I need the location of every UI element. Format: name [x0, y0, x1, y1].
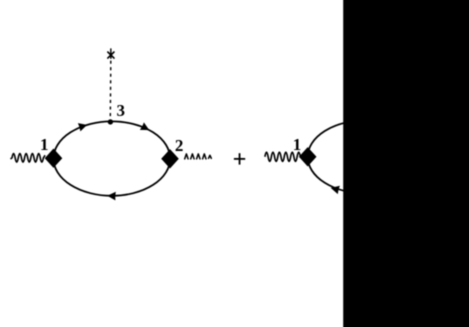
vertex diamond 1 (right diagram)	[299, 147, 317, 166]
arrow on top-left arc	[78, 123, 87, 131]
arrow on top-right arc	[140, 122, 149, 130]
dashed line to cross (external field)	[109, 61, 112, 120]
fermion loop ellipse (left diagram)	[54, 121, 171, 195]
black panel on right	[343, 0, 469, 327]
svg-text:2: 2	[175, 136, 184, 155]
svg-text:1: 1	[293, 135, 302, 154]
fermion loop ellipse (right diagram, clipped by black panel)	[308, 120, 425, 193]
node 3 dot	[108, 119, 113, 124]
vertex diamond 2	[161, 149, 179, 168]
arrow on bottom arc (right diagram)	[331, 186, 340, 194]
cross x	[108, 49, 114, 58]
wire: photon wavy line into vertex 1 (right diagram)	[265, 152, 300, 161]
caret line (cut photon) after vertex 2	[185, 154, 212, 159]
plus sign	[234, 153, 245, 164]
vertex diamond 1	[45, 149, 63, 168]
svg-text:3: 3	[117, 101, 126, 120]
wire: photon wavy line into vertex 1 (left diagram)	[10, 154, 45, 163]
arrow on bottom arc	[107, 192, 116, 201]
svg-text:1: 1	[40, 135, 49, 154]
